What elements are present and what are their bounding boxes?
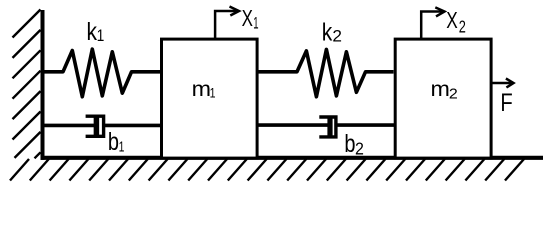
svg-text:F: F bbox=[500, 89, 512, 117]
svg-text:1: 1 bbox=[119, 138, 125, 155]
svg-text:1: 1 bbox=[210, 85, 216, 101]
svg-text:b: b bbox=[108, 128, 119, 156]
svg-text:1: 1 bbox=[253, 15, 258, 33]
svg-text:X: X bbox=[242, 5, 253, 31]
svg-text:k: k bbox=[322, 18, 333, 46]
svg-text:b: b bbox=[344, 130, 355, 158]
svg-text:2: 2 bbox=[355, 139, 364, 158]
svg-text:2: 2 bbox=[449, 87, 458, 103]
svg-text:m: m bbox=[431, 77, 450, 101]
svg-text:2: 2 bbox=[332, 27, 342, 46]
svg-text:1: 1 bbox=[97, 27, 105, 45]
svg-text:X: X bbox=[446, 7, 458, 33]
svg-text:2: 2 bbox=[459, 17, 466, 37]
svg-text:m: m bbox=[192, 77, 211, 101]
